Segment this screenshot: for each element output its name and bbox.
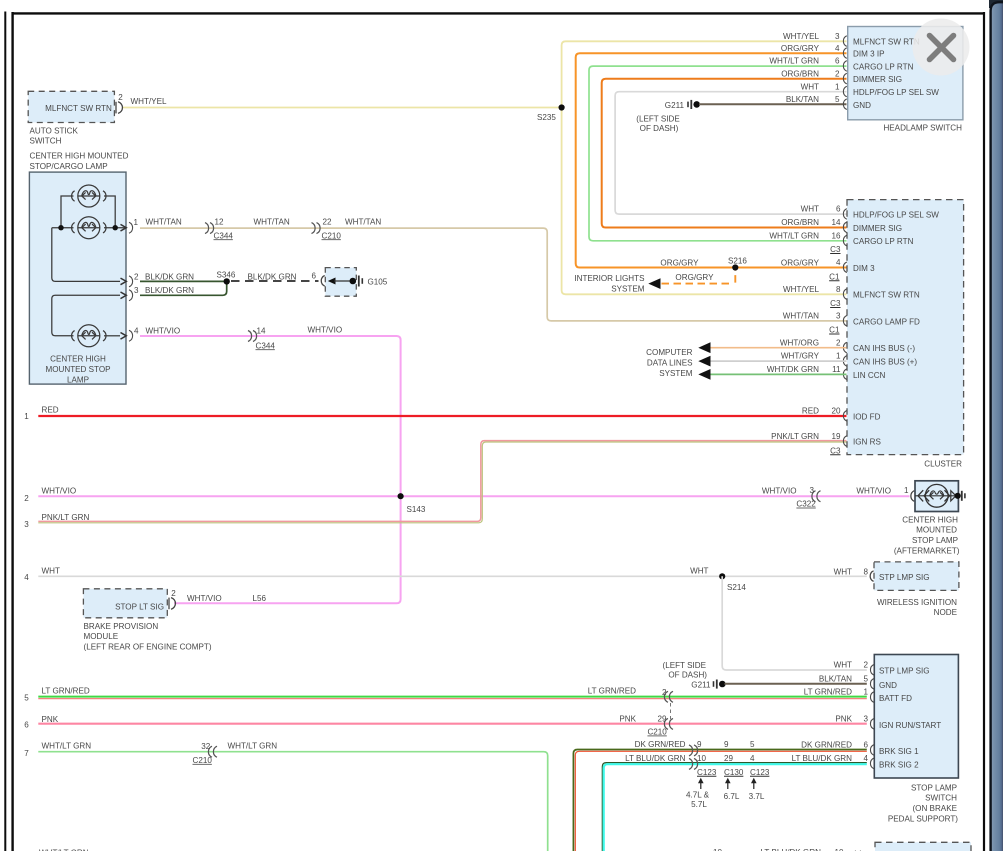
- node S214: [719, 573, 746, 592]
- svg-text:STOP LT SIG: STOP LT SIG: [115, 602, 164, 611]
- wire BLK/DK GRN lamp pin 3 up to S346: [140, 283, 227, 295]
- svg-text:C123: C123: [697, 768, 717, 777]
- connector C210 pin 32 on row 7: [193, 742, 218, 765]
- svg-text:CENTER HIGH: CENTER HIGH: [902, 515, 958, 524]
- svg-text:WHT/VIO: WHT/VIO: [146, 327, 181, 336]
- lamp pin arrows and arcs 1-4: [121, 224, 127, 339]
- label LT BLU/DK GRN left: [625, 754, 686, 763]
- pin arc wireless node: [870, 571, 873, 582]
- svg-text:2: 2: [836, 338, 841, 347]
- wire ORG/GRY dashed branch to interior lights system: [659, 270, 735, 284]
- svg-text:S143: S143: [407, 505, 426, 514]
- stop lamp switch pin labels: [879, 666, 941, 769]
- wire WHT headlamp pin 1 to cluster pin 6: [615, 92, 846, 214]
- svg-text:(LEFT SIDE: (LEFT SIDE: [663, 661, 707, 670]
- component STOP LAMP SWITCH box: [874, 655, 958, 824]
- wire WHT/YEL S235 up to headlamp switch pin 3: [562, 41, 847, 107]
- svg-text:WHT/LT GRN: WHT/LT GRN: [42, 741, 92, 750]
- svg-text:MLFNCT SW RTN: MLFNCT SW RTN: [853, 38, 920, 47]
- svg-text:STOP LAMP: STOP LAMP: [912, 536, 958, 545]
- stop lamp switch pin arcs: [870, 665, 873, 769]
- engine labels: [686, 790, 765, 809]
- svg-text:HEADLAMP SWITCH: HEADLAMP SWITCH: [883, 124, 962, 133]
- bottom cut row text: [713, 848, 861, 851]
- svg-text:3.7L: 3.7L: [749, 792, 765, 801]
- svg-text:SWITCH: SWITCH: [925, 794, 957, 803]
- stop lamp switch pin numbers: [863, 660, 868, 763]
- svg-text:STOP LAMP: STOP LAMP: [911, 783, 957, 792]
- svg-text:INTERIOR LIGHTS: INTERIOR LIGHTS: [574, 274, 645, 283]
- svg-text:PNK: PNK: [835, 714, 852, 723]
- wire pin 3 to lamp3 left: [52, 295, 120, 336]
- labels WHT/VIO L56: [187, 594, 267, 603]
- cluster pin arcs: [843, 209, 846, 447]
- junction dots inside lamp: [58, 225, 118, 230]
- svg-text:1: 1: [904, 486, 909, 495]
- wire 6 PNK to stop lamp switch pin 3: [38, 723, 867, 725]
- svg-text:C210: C210: [322, 231, 342, 240]
- svg-text:BLK/DK GRN: BLK/DK GRN: [145, 286, 194, 295]
- page frame left line: [11, 12, 13, 851]
- wire ORG/BRN headlamp pin 2 to cluster pin 14: [602, 79, 847, 228]
- svg-text:6: 6: [835, 57, 840, 66]
- svg-text:5: 5: [750, 740, 755, 749]
- svg-text:CARGO LP RTN: CARGO LP RTN: [853, 63, 914, 72]
- wire WHT/DK GRN to LIN CCN: [709, 373, 847, 375]
- svg-text:29: 29: [657, 714, 667, 723]
- page frame top line: [12, 12, 985, 14]
- svg-text:DIM 3: DIM 3: [853, 264, 875, 273]
- svg-text:PNK: PNK: [619, 714, 636, 723]
- svg-text:4: 4: [134, 327, 139, 336]
- wire WHT/YEL S235 down to cluster pin 8: [562, 108, 847, 295]
- wire lamp2 row to pin 1 and down-left to pin 2: [52, 228, 126, 282]
- svg-text:(AFTERMARKET): (AFTERMARKET): [894, 546, 960, 555]
- label PNK left of connector: [619, 714, 636, 723]
- svg-text:COMPUTER: COMPUTER: [646, 348, 692, 357]
- svg-text:WHT/TAN: WHT/TAN: [254, 218, 290, 227]
- svg-text:WHT/YEL: WHT/YEL: [783, 32, 819, 41]
- wire LT BLU/DK GRN from bottom to BRK SIG 2: [602, 763, 867, 851]
- component HEADLAMP SWITCH box: [848, 27, 963, 133]
- label DK GRN/RED left: [635, 740, 686, 749]
- connector C210 pin 29 on row 6: [647, 714, 673, 736]
- label WHT/LT GRN bottom cut: [39, 848, 89, 851]
- svg-text:5.7L: 5.7L: [691, 800, 707, 809]
- svg-text:WHT/DK GRN: WHT/DK GRN: [767, 365, 819, 374]
- svg-text:SWITCH: SWITCH: [30, 137, 62, 146]
- svg-text:7: 7: [24, 749, 29, 758]
- svg-text:CARGO LP RTN: CARGO LP RTN: [853, 237, 914, 246]
- svg-text:PNK: PNK: [42, 715, 59, 724]
- component CLUSTER box: [847, 200, 964, 469]
- svg-text:WHT/LT GRN: WHT/LT GRN: [228, 741, 278, 750]
- wire WHT/VIO lamp pin 4 to brake provision module: [140, 336, 401, 603]
- svg-text:4: 4: [24, 573, 29, 582]
- label center high mounted stop/cargo lamp: [30, 152, 129, 171]
- label WHT/TAN 3: [345, 218, 381, 227]
- svg-text:4: 4: [836, 258, 841, 267]
- svg-text:SYSTEM: SYSTEM: [611, 284, 645, 293]
- svg-text:19: 19: [831, 432, 841, 441]
- svg-text:G211: G211: [665, 101, 685, 110]
- svg-text:ORG/BRN: ORG/BRN: [781, 218, 819, 227]
- label WHT/TAN 2: [254, 218, 290, 227]
- svg-text:ORG/GRY: ORG/GRY: [660, 258, 699, 267]
- svg-text:S235: S235: [537, 113, 556, 122]
- svg-text:CARGO LAMP FD: CARGO LAMP FD: [853, 317, 920, 326]
- wire WHT/YEL from auto stick switch to S235: [122, 107, 562, 109]
- arrows computer data lines system: [698, 342, 710, 380]
- wire 3 PNK/LT GRN to cluster pin 19 IGN RS: [38, 441, 846, 523]
- svg-text:3: 3: [835, 32, 840, 41]
- svg-text:OF DASH): OF DASH): [668, 670, 707, 679]
- svg-text:DATA LINES: DATA LINES: [647, 359, 693, 368]
- page border outer left line: [4, 12, 6, 851]
- svg-text:C1: C1: [829, 326, 840, 335]
- svg-text:RED: RED: [42, 406, 59, 415]
- connector WIRELESS IGNITION NODE box: [874, 562, 959, 617]
- cluster pin labels: [853, 211, 939, 447]
- svg-text:6.7L: 6.7L: [724, 792, 740, 801]
- connector arcs on BRK SIG 1 wire: [689, 745, 698, 756]
- svg-text:IGN RS: IGN RS: [853, 438, 881, 447]
- svg-text:10: 10: [697, 754, 707, 763]
- label brake provision module: [84, 622, 212, 652]
- wire 7 WHT/LT GRN down at x548: [38, 752, 547, 851]
- svg-text:CENTER HIGH: CENTER HIGH: [50, 355, 106, 364]
- svg-text:ORG/GRY: ORG/GRY: [781, 258, 820, 267]
- svg-text:2: 2: [662, 688, 667, 697]
- label BLK/DK GRN dashed: [248, 272, 297, 281]
- pin numbers 9 9 5 on BRK SIG 1: [697, 740, 755, 749]
- svg-text:WHT/TAN: WHT/TAN: [345, 218, 381, 227]
- svg-text:C130: C130: [724, 768, 744, 777]
- connector BRAKE PROVISION MODULE box: [83, 589, 176, 618]
- bottom cut dashed box: [875, 842, 971, 851]
- svg-text:WHT/VIO: WHT/VIO: [762, 486, 797, 495]
- wire WHT/ORG to CAN IHS BUS (-): [709, 347, 847, 349]
- headlamp switch pin labels: [853, 38, 939, 110]
- svg-text:STP LMP SIG: STP LMP SIG: [879, 573, 930, 582]
- svg-text:4: 4: [863, 754, 868, 763]
- node S143: [398, 493, 426, 514]
- connector arcs on BRK SIG 2 wire: [689, 758, 698, 769]
- svg-text:LT BLU/DK GRN: LT BLU/DK GRN: [792, 754, 853, 763]
- svg-text:DK GRN/RED: DK GRN/RED: [801, 740, 852, 749]
- svg-text:12: 12: [215, 218, 225, 227]
- wire WHT S214 down to stop lamp switch pin 2: [722, 576, 867, 670]
- ground at aftermarket lamp: [955, 491, 965, 501]
- up arrows to connector names: [701, 781, 754, 789]
- svg-text:BLK/DK GRN: BLK/DK GRN: [145, 272, 194, 281]
- ground G105 box: [325, 268, 387, 297]
- svg-text:IOD FD: IOD FD: [853, 412, 881, 421]
- svg-text:MLFNCT SW RTN: MLFNCT SW RTN: [45, 104, 112, 113]
- svg-text:C3: C3: [830, 446, 841, 455]
- row 4 labels: [24, 566, 60, 582]
- row 1 labels: [24, 406, 59, 422]
- lamp pin numbers: [134, 218, 140, 336]
- svg-text:22: 22: [323, 218, 333, 227]
- svg-text:(ON BRAKE: (ON BRAKE: [912, 804, 957, 813]
- cluster wire labels: [767, 205, 820, 441]
- svg-text:WHT/VIO: WHT/VIO: [187, 594, 222, 603]
- wire lamp1 right branch: [104, 196, 115, 228]
- svg-text:32: 32: [201, 742, 211, 751]
- svg-text:14: 14: [831, 218, 841, 227]
- svg-text:C344: C344: [214, 231, 234, 240]
- svg-text:GND: GND: [879, 681, 897, 690]
- svg-text:LT GRN/RED: LT GRN/RED: [588, 686, 636, 695]
- svg-text:BLK/TAN: BLK/TAN: [819, 674, 852, 683]
- wire BLK/TAN G211 to stop lamp switch pin 5: [725, 683, 867, 685]
- headlamp switch wire labels: [769, 32, 819, 104]
- svg-text:WHT: WHT: [834, 660, 852, 669]
- svg-text:PNK/LT GRN: PNK/LT GRN: [771, 432, 819, 441]
- svg-text:9: 9: [697, 740, 702, 749]
- svg-text:RED: RED: [802, 407, 819, 416]
- svg-text:ORG/BRN: ORG/BRN: [781, 69, 819, 78]
- connector C344 pin 12 on WHT/TAN: [205, 218, 233, 241]
- wire BLK/TAN G211 to headlamp pin 5: [699, 103, 847, 105]
- wire 5 LT GRN/RED to stop lamp switch pin 1: [38, 697, 867, 699]
- svg-text:CAN IHS BUS (-): CAN IHS BUS (-): [853, 344, 915, 353]
- label ORG/GRY left of S216: [660, 258, 699, 267]
- svg-text:2: 2: [24, 494, 29, 503]
- connector C210 pin 22 on WHT/TAN: [312, 218, 342, 241]
- svg-text:STOP/CARGO LAMP: STOP/CARGO LAMP: [30, 162, 108, 171]
- svg-text:WHT: WHT: [801, 205, 819, 214]
- svg-text:WHT/LT GRN: WHT/LT GRN: [769, 57, 819, 66]
- svg-text:DIMMER SIG: DIMMER SIG: [853, 224, 902, 233]
- pin numbers 10 29 4 on BRK SIG 2: [697, 754, 755, 763]
- svg-text:WHT/VIO: WHT/VIO: [856, 486, 891, 495]
- cluster connector names C3/C1: [829, 245, 841, 455]
- svg-text:2: 2: [134, 272, 139, 281]
- svg-text:MOUNTED STOP: MOUNTED STOP: [45, 365, 110, 374]
- svg-text:CENTER HIGH MOUNTED: CENTER HIGH MOUNTED: [30, 152, 129, 161]
- connector C210 pin 2 on row 5: [662, 688, 673, 702]
- svg-text:DIM 3 IP: DIM 3 IP: [853, 50, 884, 59]
- connector C344 pin 14 on WHT/VIO: [248, 327, 275, 351]
- wire ORG/GRY headlamp pin 4 to S216 to cluster pin 4: [576, 53, 847, 267]
- label WHT left of S214: [690, 566, 708, 575]
- svg-text:G211: G211: [691, 680, 711, 689]
- svg-text:BRK SIG 1: BRK SIG 1: [879, 747, 919, 756]
- wire WHT/LT GRN headlamp pin 6 to cluster pin 16: [589, 66, 847, 241]
- node S346: [217, 271, 236, 285]
- svg-text:C3: C3: [830, 245, 841, 254]
- svg-text:LIN CCN: LIN CCN: [853, 371, 886, 380]
- svg-text:STP LMP SIG: STP LMP SIG: [879, 666, 930, 675]
- svg-text:3: 3: [836, 312, 841, 321]
- svg-text:LAMP: LAMP: [67, 375, 89, 384]
- svg-text:DIMMER SIG: DIMMER SIG: [853, 75, 902, 84]
- wire BLK/DK GRN lamp pin 2 to S346: [140, 280, 227, 282]
- svg-text:(LEFT REAR OF ENGINE COMPT): (LEFT REAR OF ENGINE COMPT): [84, 643, 212, 652]
- svg-text:BLK/DK GRN: BLK/DK GRN: [248, 272, 297, 281]
- svg-text:WHT: WHT: [42, 566, 60, 575]
- svg-text:BLK/TAN: BLK/TAN: [786, 95, 819, 104]
- connector C322 pin 3 on WHT/VIO: [796, 486, 820, 508]
- svg-text:BRAKE PROVISION: BRAKE PROVISION: [84, 622, 159, 631]
- svg-text:16: 16: [831, 231, 841, 240]
- svg-text:C344: C344: [256, 341, 276, 350]
- label WHT pin 8: [834, 567, 869, 576]
- svg-text:WHT/VIO: WHT/VIO: [308, 326, 343, 335]
- svg-text:MLFNCT SW RTN: MLFNCT SW RTN: [853, 291, 920, 300]
- close button X icon: [930, 36, 954, 60]
- svg-text:8: 8: [836, 285, 841, 294]
- svg-text:6: 6: [836, 205, 841, 214]
- svg-text:9: 9: [724, 740, 729, 749]
- wire lamp3 right to pin 4: [104, 335, 120, 337]
- wire BLK/DK GRN dashed S346 to G105: [231, 280, 319, 282]
- svg-text:2: 2: [835, 69, 840, 78]
- label computer data lines system: [646, 348, 693, 378]
- headlamp switch pin arcs: [843, 36, 846, 110]
- svg-text:4: 4: [835, 44, 840, 53]
- svg-text:IGN RUN/START: IGN RUN/START: [879, 721, 941, 730]
- svg-text:PNK/LT GRN: PNK/LT GRN: [42, 513, 90, 522]
- svg-text:1: 1: [134, 218, 139, 227]
- label ORG/GRY on dashed branch: [675, 273, 714, 282]
- svg-text:OF DASH): OF DASH): [640, 124, 679, 133]
- wire WHT/GRY to CAN IHS BUS (+): [709, 360, 847, 362]
- svg-text:3: 3: [24, 520, 29, 529]
- svg-text:S216: S216: [728, 256, 747, 265]
- svg-text:1: 1: [836, 352, 841, 361]
- svg-text:2: 2: [118, 93, 123, 102]
- label auto stick switch: [30, 126, 79, 145]
- svg-text:1: 1: [24, 412, 29, 421]
- svg-text:CAN IHS BUS (+): CAN IHS BUS (+): [853, 358, 917, 367]
- svg-text:14: 14: [257, 327, 267, 336]
- svg-text:4: 4: [750, 754, 755, 763]
- svg-text:WHT/LT GRN: WHT/LT GRN: [769, 231, 819, 240]
- svg-text:20: 20: [831, 407, 841, 416]
- label BLK/DK GRN pin2: [145, 272, 194, 281]
- svg-text:WHT/ORG: WHT/ORG: [780, 338, 819, 347]
- connector AUTO STICK SWITCH box: [28, 91, 123, 122]
- svg-text:3: 3: [134, 286, 139, 295]
- svg-text:3: 3: [809, 486, 814, 495]
- svg-text:4.7L &: 4.7L &: [686, 790, 710, 799]
- wire 2 WHT/VIO to aftermarket stop lamp: [38, 495, 909, 497]
- node S216: [728, 256, 747, 270]
- label LT GRN/RED left of connector: [588, 686, 636, 695]
- connector C210 link dashed: [670, 703, 672, 719]
- svg-text:S346: S346: [217, 271, 236, 280]
- svg-text:WHT/TAN: WHT/TAN: [146, 218, 182, 227]
- svg-text:LT GRN/RED: LT GRN/RED: [42, 686, 90, 695]
- svg-text:BATT FD: BATT FD: [879, 694, 912, 703]
- svg-text:C210: C210: [647, 728, 667, 737]
- svg-text:AUTO STICK: AUTO STICK: [30, 126, 79, 135]
- label WHT/VIO left of C322: [762, 486, 797, 495]
- label ORG/GRY right of S216: [781, 258, 820, 267]
- svg-text:G105: G105: [368, 278, 388, 287]
- headlamp switch pin numbers: [835, 32, 840, 104]
- svg-text:8: 8: [863, 567, 868, 576]
- label WHT/VIO 2: [308, 326, 343, 335]
- svg-text:6: 6: [863, 740, 868, 749]
- svg-text:C322: C322: [796, 500, 816, 509]
- wire 4 WHT to wireless ignition node: [38, 575, 867, 577]
- label interior lights system: [574, 274, 645, 294]
- ground G211 upper: [636, 100, 700, 133]
- svg-text:WHT/YEL: WHT/YEL: [783, 285, 819, 294]
- svg-text:LT GRN/RED: LT GRN/RED: [804, 688, 852, 697]
- svg-text:C3: C3: [830, 299, 841, 308]
- svg-text:2: 2: [171, 589, 176, 598]
- svg-text:C210: C210: [193, 756, 213, 765]
- svg-text:WHT/TAN: WHT/TAN: [783, 312, 819, 321]
- cluster pin numbers: [831, 205, 841, 441]
- wire 1 RED to cluster pin 20 IOD FD: [38, 415, 846, 417]
- svg-text:C123: C123: [750, 768, 770, 777]
- component CENTER HIGH MOUNTED STOP LAMP (AFTERMARKET): [894, 481, 960, 556]
- close button circle: [913, 19, 970, 76]
- svg-text:DK GRN/RED: DK GRN/RED: [635, 740, 686, 749]
- svg-text:CLUSTER: CLUSTER: [924, 459, 962, 468]
- label BLK/DK GRN pin3: [145, 286, 194, 295]
- svg-text:GND: GND: [853, 101, 871, 110]
- label WHT/VIO pin4: [146, 327, 181, 336]
- wire DK GRN/RED from bottom to BRK SIG 1: [573, 750, 866, 851]
- svg-text:HDLP/FOG LP SEL SW: HDLP/FOG LP SEL SW: [853, 211, 939, 220]
- svg-text:C1: C1: [829, 272, 840, 281]
- stop lamp switch wire labels: [792, 660, 853, 763]
- svg-text:S214: S214: [727, 583, 746, 592]
- svg-text:6: 6: [24, 721, 29, 730]
- svg-text:MODULE: MODULE: [84, 632, 119, 641]
- label WHT/VIO pin 1: [856, 486, 909, 495]
- svg-text:WIRELESS IGNITION: WIRELESS IGNITION: [877, 598, 957, 607]
- svg-text:MOUNTED: MOUNTED: [916, 526, 957, 535]
- arrow to interior lights system: [648, 278, 660, 289]
- svg-text:ORG/GRY: ORG/GRY: [675, 273, 714, 282]
- svg-text:L56: L56: [253, 594, 267, 603]
- svg-text:5: 5: [24, 694, 29, 703]
- row 6 labels: [24, 715, 59, 730]
- row 3 labels: [24, 513, 89, 529]
- connector G105 pin 6 arc: [311, 272, 324, 287]
- component CENTER HIGH MOUNTED STOP LAMP box: [29, 172, 126, 384]
- svg-text:WHT: WHT: [690, 566, 708, 575]
- svg-text:LT BLU/DK GRN: LT BLU/DK GRN: [625, 754, 686, 763]
- svg-text:WHT: WHT: [801, 82, 819, 91]
- label WHT/YEL: [131, 97, 167, 106]
- connector names C123 C130 C123: [697, 768, 770, 777]
- svg-text:NODE: NODE: [934, 608, 958, 617]
- svg-text:2: 2: [863, 660, 868, 669]
- wire lamp1 left branch: [61, 196, 74, 228]
- lamp bulb 2: [72, 217, 106, 239]
- svg-text:WHT/VIO: WHT/VIO: [42, 487, 77, 496]
- svg-text:ORG/GRY: ORG/GRY: [781, 44, 820, 53]
- svg-text:3: 3: [863, 714, 868, 723]
- wire WHT/TAN lamp pin1 to cluster pin 3 CARGO LAMP FD: [140, 228, 847, 321]
- svg-text:1: 1: [835, 82, 840, 91]
- pin arc aftermarket lamp: [911, 491, 914, 502]
- node S235: [537, 104, 565, 122]
- svg-text:5: 5: [863, 674, 868, 683]
- label WHT/TAN 1: [146, 218, 182, 227]
- svg-text:PEDAL SUPPORT): PEDAL SUPPORT): [888, 814, 958, 823]
- svg-text:WHT/GRY: WHT/GRY: [781, 352, 820, 361]
